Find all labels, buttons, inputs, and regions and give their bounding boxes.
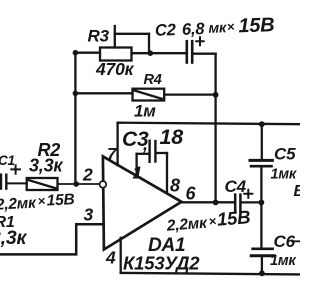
svg-text:1мк: 1мк [270,253,296,269]
svg-text:8: 8 [170,176,180,196]
svg-text:С6: С6 [274,232,296,251]
svg-text:В: В [294,183,301,200]
svg-text:×: × [227,19,236,34]
svg-text:3,3к: 3,3к [29,156,63,176]
svg-text:18: 18 [160,125,184,149]
svg-text:15В: 15В [238,14,275,37]
svg-text:R4: R4 [144,72,162,88]
svg-text:1мк: 1мк [271,167,297,183]
svg-text:1м: 1м [134,102,156,121]
svg-text:15В: 15В [216,206,251,230]
svg-text:6: 6 [186,184,197,204]
svg-text:1: 1 [133,163,143,183]
svg-text:С5: С5 [274,145,296,164]
svg-text:С4: С4 [225,177,247,196]
svg-text:2,2мк: 2,2мк [0,195,37,214]
svg-text:,: , [142,134,148,154]
svg-text:3: 3 [84,205,94,225]
svg-text:R3: R3 [88,27,110,46]
svg-text:2,2мк: 2,2мк [165,215,208,235]
svg-text:С2: С2 [155,21,176,40]
svg-text:×: × [37,193,46,208]
svg-text:4: 4 [105,248,116,268]
svg-text:мк: мк [208,20,227,37]
svg-text:К153УД2: К153УД2 [123,253,200,274]
svg-text:С1: С1 [0,153,15,168]
svg-text:3,3к: 3,3к [0,227,28,249]
svg-text:2: 2 [82,165,93,185]
svg-text:15В: 15В [46,191,75,209]
svg-text:470к: 470к [95,59,135,79]
svg-text:6,8: 6,8 [182,20,206,39]
